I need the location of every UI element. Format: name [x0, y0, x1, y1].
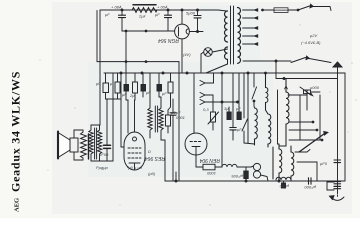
switch S4 [252, 73, 257, 108]
coil L8 bottom horizontal [276, 177, 291, 180]
trimmer capacitor C7 [288, 87, 320, 110]
tap wires with arrows [243, 9, 258, 45]
capacitor C12 [309, 178, 312, 184]
value labels [96, 5, 328, 191]
wire: switch return to rail [297, 162, 317, 181]
field coil R13 zigzag loop [74, 130, 89, 160]
svg-text:µF00: µF00 [99, 152, 109, 157]
capacitor C8 (block) [244, 167, 251, 181]
wire: bottom rail [165, 140, 345, 182]
svg-text:5µ00: 5µ00 [186, 11, 196, 16]
svg-text:µF: µF [122, 92, 127, 97]
svg-text:µ2V: µ2V [310, 33, 318, 38]
output transformer T3 [89, 125, 102, 161]
svg-text:(µ0): (µ0) [148, 171, 156, 176]
trimmer resistor R9 above V1 [208, 112, 219, 130]
scan speckles [39, 24, 356, 205]
svg-text:0001: 0001 [176, 115, 185, 120]
coil L2 small (osc tickler) [265, 72, 268, 114]
svg-text:µ000: µ000 [310, 85, 320, 90]
wire: left rail below bus [96, 73, 100, 125]
bias chain resistor R4 [133, 73, 138, 100]
svg-text:+ 00Ä: + 00Ä [157, 5, 168, 10]
wire: x113 drop [112, 73, 114, 161]
tube V1 REN 904 [185, 133, 207, 162]
coil L1a (osc primary) [255, 108, 258, 145]
heater tap arrow 2 [200, 93, 213, 113]
capacitor C11 (block) [282, 181, 286, 188]
wire: left vertical rail [99, 10, 101, 73]
capacitor C4 (block) [124, 31, 129, 100]
switch S1 mains [297, 4, 331, 11]
capacitor C3 5000pF [194, 10, 201, 32]
wire: x277.5 drop to L4 [278, 90, 280, 144]
svg-text:µF005: µF005 [231, 174, 243, 179]
output tube V2 RES 964 [124, 132, 145, 170]
svg-text:(~4.6V£-B): (~4.6V£-B) [301, 40, 321, 45]
svg-text:µF: µF [146, 90, 151, 95]
resistor R1 (smoothing, zigzag with bar) [132, 5, 157, 13]
wire: x179 long drop to bottom rail [178, 62, 180, 181]
coil L6 horizontal [222, 164, 246, 167]
resistor R8 (horizontal box) [196, 162, 222, 170]
transformer T1 primary upper winding [218, 10, 228, 42]
main bus y73 [104, 72, 345, 181]
svg-text:µ0: µ0 [96, 81, 101, 86]
svg-text:µF: µF [155, 12, 160, 17]
capacitor C1 2uF [119, 10, 126, 31]
capacitor C13 right [334, 160, 341, 163]
wire: rectifier filament to cap [189, 31, 203, 33]
resistor R11 block [237, 112, 241, 120]
fuse F1 [262, 8, 298, 13]
schematic ink layer [58, 4, 345, 200]
capacitor C14 [170, 99, 176, 181]
coil L1b (osc secondary) [244, 114, 271, 147]
svg-text:Pµgµp: Pµgµp [96, 165, 109, 170]
AF transformer T2 [148, 106, 165, 140]
wire: x150 drop [149, 73, 151, 106]
wire: T3 bottom run [91, 160, 113, 162]
svg-text:+ 08Ä: + 08Ä [111, 5, 122, 10]
svg-text:2µ: 2µ [129, 93, 135, 98]
coil L5 lower [291, 146, 294, 181]
speaker SP1 [58, 132, 78, 159]
svg-text:²µ0 µ µ0: ²µ0 µ µ0 [127, 165, 143, 170]
svg-text:RGN 564: RGN 564 [158, 37, 179, 43]
svg-text:REN 904: REN 904 [199, 157, 220, 163]
svg-text:µF00: µF00 [279, 184, 289, 189]
capacitor C5 (block) [141, 73, 146, 97]
rectifier tube U1 RGN 564 [175, 10, 190, 39]
coil L4 lower [273, 144, 282, 181]
wire: x121 drop [121, 73, 124, 147]
earth arrow bottom right [330, 192, 345, 200]
svg-text:Geadux 34 WLK/WS: Geadux 34 WLK/WS [9, 71, 23, 192]
wire: cathode rail y31 [122, 30, 175, 32]
svg-text:D: D [148, 149, 151, 154]
capacitor C6 (block) [157, 73, 162, 97]
transformer T1 secondary winding [238, 8, 241, 64]
svg-text:µF: µF [162, 91, 167, 96]
svg-text:µF000: µF000 [304, 185, 316, 190]
wire: V1 grid drop [193, 73, 195, 133]
bias chain resistor R2 [103, 73, 121, 99]
svg-text:2µk: 2µk [138, 14, 147, 19]
resistor R10 block [227, 107, 231, 120]
svg-text:0,3: 0,3 [203, 107, 209, 112]
coil L3 (antenna) [279, 79, 289, 147]
switch S2 [291, 56, 331, 62]
wire: V2 anode drop [134, 100, 137, 132]
heater tap arrow 1 [200, 74, 214, 86]
switch S5 (wave change) [289, 121, 328, 152]
wire: heater run y61 [243, 60, 337, 80]
resistor R12 [166, 110, 171, 133]
title: AEG Geadux 34 WLK/WS (vertical) [9, 71, 23, 212]
wire: verticals below bus mid [222, 73, 248, 167]
transformer T1 core [231, 6, 234, 64]
svg-text:µF: µF [236, 106, 241, 111]
capacitor C9 [230, 126, 236, 140]
wire: top HT rail [100, 9, 218, 11]
capacitor C2 1uF [165, 10, 172, 31]
svg-text:3µ: 3µ [224, 106, 229, 111]
transformer T1 primary lower winding [206, 47, 228, 73]
svg-text:RES 964: RES 964 [145, 155, 165, 161]
bias chain resistor R3 [115, 73, 120, 99]
wire: screen feed y61.6 [97, 11, 179, 63]
wire: x128 drop [126, 100, 128, 133]
wire: x161 AF drop [159, 97, 161, 106]
capacitor C15 stack [327, 182, 341, 191]
capacitor C10 (plates) [104, 99, 111, 161]
wire: rectifier to bus [181, 39, 183, 73]
wire: right column verticals [300, 95, 320, 140]
heater tap arrow 3 [200, 100, 239, 105]
coil L7 (stacked loops) [251, 163, 268, 181]
switch S3 (band, left) [242, 73, 248, 143]
svg-text:µF: µF [237, 127, 242, 132]
svg-text:µF0: µF0 [320, 161, 328, 166]
lamp LA1 dial [201, 48, 228, 73]
antenna arrow node [333, 62, 342, 192]
svg-text:1000: 1000 [206, 171, 216, 176]
svg-text:(4V): (4V) [183, 52, 191, 57]
svg-text:AEG: AEG [14, 198, 21, 212]
bias chain resistor R6 [168, 73, 173, 110]
svg-text:µF: µF [105, 12, 110, 17]
